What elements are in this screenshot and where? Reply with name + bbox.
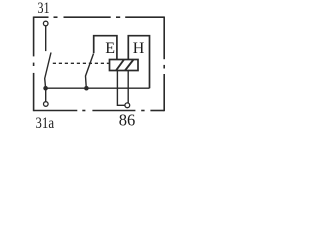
enclosure frame bottom edge	[34, 110, 165, 112]
enclosure frame left edge	[33, 17, 35, 112]
svg-text:H: H	[133, 40, 145, 57]
svg-text:31a: 31a	[35, 115, 54, 131]
wire node A to terminal 31a	[45, 88, 47, 102]
terminal 86 circle	[125, 103, 130, 108]
winding H box	[128, 36, 149, 88]
hatch diagonal 1	[116, 60, 124, 71]
junction node B	[84, 86, 89, 91]
enclosure frame (dash-dot border) top edge	[34, 16, 165, 18]
winding E box	[94, 36, 117, 60]
armature / heater element (hatched box)	[110, 60, 139, 71]
hatch diagonal 2	[125, 60, 134, 71]
switch S2 moving arm	[86, 54, 94, 89]
terminal 31 circle	[43, 21, 48, 26]
switch S1 moving arm	[45, 53, 51, 89]
wire H winding down to terminal 86 (right leg)	[127, 71, 129, 103]
mechanical linkage (dashed) from S1 arm to armature	[53, 62, 110, 64]
enclosure frame right edge	[163, 17, 165, 112]
junction node A	[43, 86, 48, 91]
wire 31 to switch S1 fixed contact	[45, 26, 47, 51]
svg-text:E: E	[105, 40, 115, 57]
terminal 31a circle	[44, 102, 49, 107]
svg-text:31: 31	[37, 0, 49, 17]
wire E winding to terminal 86 (left leg below armature)	[117, 71, 125, 106]
svg-text:86: 86	[119, 111, 136, 130]
bottom bus wire	[46, 87, 150, 89]
